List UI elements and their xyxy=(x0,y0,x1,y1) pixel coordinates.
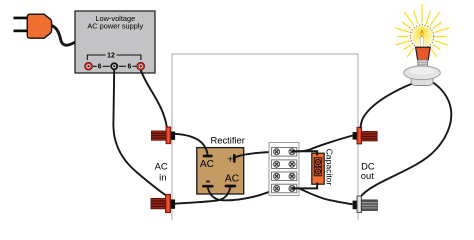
svg-text:AC: AC xyxy=(155,160,168,171)
svg-text:out: out xyxy=(361,170,374,181)
wire: lamp socket right lead to DC-out lower strip xyxy=(361,83,451,197)
node label AC in xyxy=(155,160,168,182)
pin - bottom-left xyxy=(203,185,212,188)
capacitor C1 xyxy=(312,149,335,186)
pin AC bottom-right xyxy=(226,185,235,188)
wire: terminal block row 4 to DC-out lower strip (under capacitor) xyxy=(300,189,353,205)
low-voltage AC power supply U1 xyxy=(75,11,155,73)
svg-text:AC: AC xyxy=(200,159,214,170)
terminal right (red) xyxy=(138,63,144,69)
wire: upper AC-in strip to rectifier AC (top-left) xyxy=(175,134,208,155)
glass envelope xyxy=(410,25,434,49)
wire: supply center terminal to lower AC-in strip xyxy=(113,70,166,196)
AC plug P1 xyxy=(14,14,52,38)
wire: rectifier - to terminal block row 4 xyxy=(208,187,277,201)
svg-text:6: 6 xyxy=(127,64,131,71)
12 V bracket xyxy=(87,55,105,60)
socket flange xyxy=(404,66,441,80)
svg-text:AC: AC xyxy=(225,173,239,184)
svg-text:Capacitor: Capacitor xyxy=(324,149,334,186)
svg-text:in: in xyxy=(159,171,166,182)
wire: lamp socket left lead to DC-out upper strip xyxy=(361,83,416,129)
AC-in terminal strip upper (red) xyxy=(151,127,175,144)
wire: terminal block row 4 to capacitor - xyxy=(292,183,317,189)
light rays xyxy=(395,5,448,57)
pin AC top-left xyxy=(204,155,211,158)
socket body xyxy=(411,73,433,86)
6 V tap labels xyxy=(93,65,97,67)
wire: terminal block row 1 to capacitor + xyxy=(292,151,317,155)
DC-out terminal strip upper (red) xyxy=(353,127,378,144)
DC-out terminal strip lower (gray) xyxy=(353,196,378,213)
terminal center (black) xyxy=(111,63,117,69)
power cord wire xyxy=(52,26,76,46)
lamp DS1 (glowing bulb) xyxy=(395,5,448,86)
svg-text:6: 6 xyxy=(98,64,102,71)
wire: lower AC-in strip to rectifier AC (bottom-right) xyxy=(175,187,230,204)
wire: rectifier + to terminal block row 1 xyxy=(235,152,277,158)
svg-text:+: + xyxy=(227,154,233,165)
svg-text:12: 12 xyxy=(107,52,115,59)
wire: supply right terminal to upper AC-in strip xyxy=(141,70,167,128)
terminal block TB1 xyxy=(269,143,299,196)
rectifier U2 xyxy=(197,135,245,195)
svg-text:Rectifier: Rectifier xyxy=(211,135,245,146)
breadboard (project board) xyxy=(172,54,358,226)
screw base xyxy=(418,60,428,68)
glass neck (orange) xyxy=(416,47,431,60)
pin + top-right xyxy=(233,155,236,161)
svg-text:AC power supply: AC power supply xyxy=(87,22,143,31)
terminal left (red) xyxy=(86,63,92,69)
node label DC out xyxy=(361,160,375,181)
AC-in terminal strip lower (red) xyxy=(151,194,175,212)
wire: DC-out upper strip to terminal block row 1 (over capacitor) xyxy=(293,136,353,152)
filament xyxy=(420,37,423,47)
